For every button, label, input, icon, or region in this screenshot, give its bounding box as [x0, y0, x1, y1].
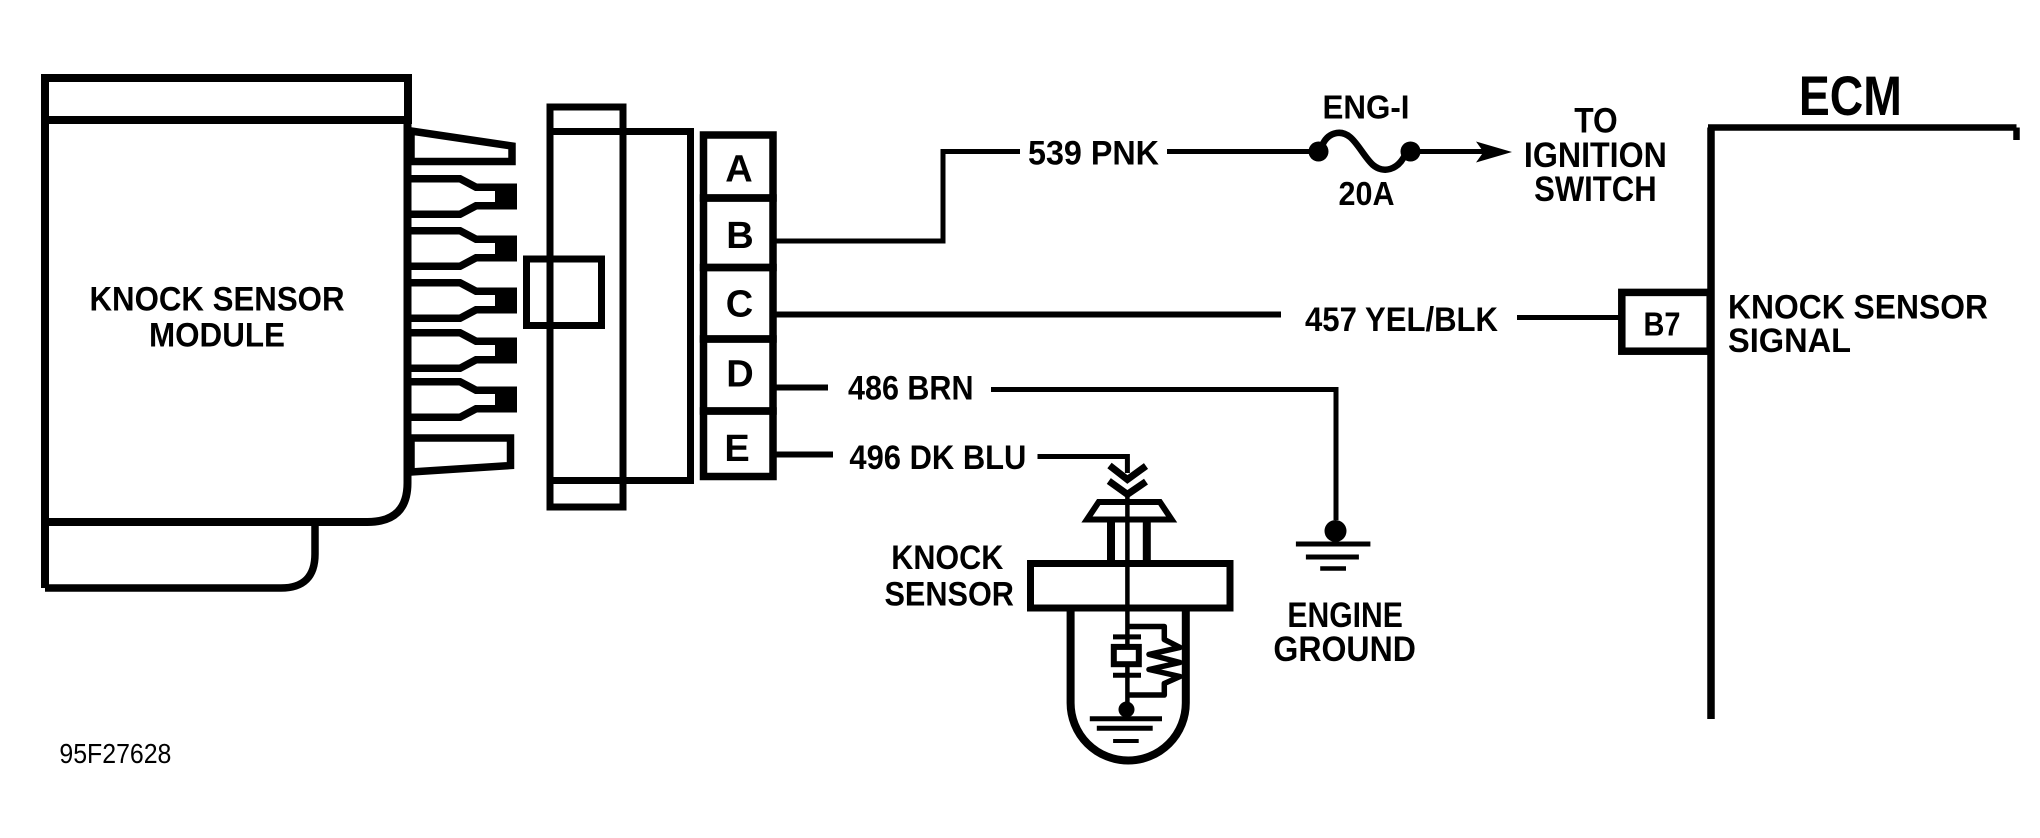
- svg-text:SIGNAL: SIGNAL: [1728, 322, 1851, 360]
- svg-text:KNOCK SENSOR: KNOCK SENSOR: [90, 281, 345, 319]
- svg-text:A: A: [725, 149, 752, 191]
- svg-text:20A: 20A: [1339, 175, 1395, 212]
- svg-text:ENG-I: ENG-I: [1323, 89, 1410, 126]
- module pin 1 (top horn): [411, 131, 512, 162]
- wire 457 to B7: [1517, 315, 1625, 320]
- wire 486 BRN to engine ground: [991, 390, 1336, 521]
- svg-text:486 BRN: 486 BRN: [848, 370, 974, 408]
- svg-text:B7: B7: [1644, 306, 1681, 343]
- connector housing wide body: [550, 132, 691, 481]
- module pin 4: [411, 283, 513, 319]
- wire 539 PNK to fuse: [1167, 149, 1313, 154]
- svg-text:457 YEL/BLK: 457 YEL/BLK: [1305, 301, 1498, 339]
- svg-text:MODULE: MODULE: [149, 317, 285, 355]
- module pin 7 (bottom horn): [411, 438, 511, 472]
- wire E 496 DK BLU: [774, 452, 833, 458]
- connector lock tab square: [527, 259, 602, 326]
- module pin 2: [411, 179, 513, 215]
- knock sensor bell body: [1071, 611, 1186, 761]
- svg-text:ECM: ECM: [1799, 64, 1902, 127]
- svg-text:496 DK BLU: 496 DK BLU: [849, 439, 1026, 477]
- svg-text:KNOCK SENSOR: KNOCK SENSOR: [1728, 289, 1988, 327]
- svg-text:SENSOR: SENSOR: [884, 576, 1014, 614]
- terminal A: [704, 135, 774, 198]
- terminal C: [704, 268, 774, 340]
- connector housing tall body: [550, 107, 623, 507]
- knock sensor flange: [1031, 564, 1231, 609]
- knock sensor posts: [1107, 522, 1115, 561]
- svg-text:B: B: [726, 215, 753, 257]
- knock sensor boot trapezoid: [1087, 502, 1172, 520]
- engine ground symbol: [1325, 520, 1347, 542]
- svg-text:D: D: [726, 354, 753, 396]
- module pin 6: [411, 382, 513, 418]
- knock sensor module U1 body: [45, 78, 408, 588]
- knock sensor center wire: [1125, 494, 1130, 709]
- piezo element plates and square: [1113, 634, 1141, 639]
- svg-text:C: C: [726, 284, 753, 326]
- wire C 457 YEL/BLK: [774, 312, 1281, 318]
- wire B to 539 PNK: [774, 152, 1020, 242]
- svg-text:KNOCK: KNOCK: [891, 539, 1003, 577]
- terminal block A-E: [704, 135, 774, 477]
- knock sensor connector chevrons: [1110, 466, 1147, 480]
- svg-text:GROUND: GROUND: [1273, 630, 1416, 669]
- terminal B7 box: [1622, 292, 1710, 351]
- terminal D: [704, 339, 774, 411]
- module lower extension: [45, 524, 315, 588]
- terminal B: [704, 198, 774, 268]
- svg-text:95F27628: 95F27628: [59, 738, 171, 769]
- ECM outline: [1708, 128, 2017, 141]
- svg-text:539 PNK: 539 PNK: [1028, 135, 1159, 173]
- svg-text:SWITCH: SWITCH: [1534, 170, 1657, 209]
- module left edge wire: [41, 120, 49, 588]
- fuse ENG-I 20A: [1309, 142, 1329, 162]
- module pin 3: [411, 231, 513, 267]
- module pin 5: [411, 333, 513, 369]
- wire fuse to ignition switch arrow: [1420, 149, 1486, 154]
- svg-text:E: E: [724, 428, 749, 470]
- wire D 486 BRN: [774, 385, 828, 391]
- module lid: [45, 78, 408, 120]
- terminal E: [704, 411, 774, 477]
- resistor R1 (inside knock sensor): [1127, 627, 1180, 696]
- wire 496 DK BLU to knock sensor: [1038, 457, 1128, 474]
- knock sensor internal ground: [1119, 702, 1135, 718]
- module right side and rounded bottom: [45, 118, 408, 522]
